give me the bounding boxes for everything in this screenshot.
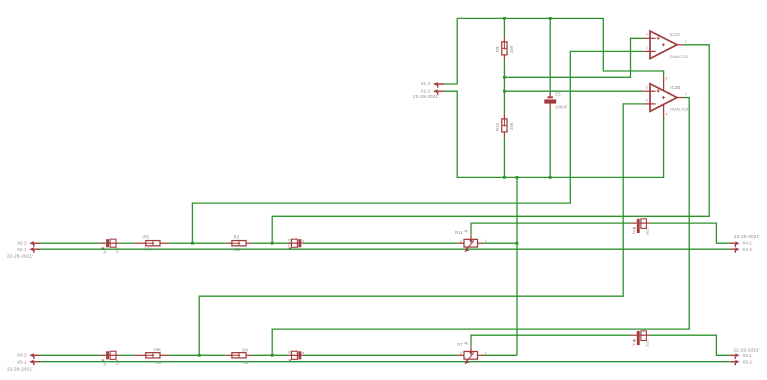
svg-text:22-29-2021': 22-29-2021' bbox=[413, 94, 439, 99]
svg-text:C5: C5 bbox=[555, 91, 561, 96]
svg-text:3: 3 bbox=[646, 33, 648, 37]
svg-text:R9: R9 bbox=[495, 46, 500, 52]
svg-text:X3-2: X3-2 bbox=[17, 353, 27, 358]
svg-text:2: 2 bbox=[460, 352, 462, 356]
svg-text:22-29-2021': 22-29-2021' bbox=[7, 254, 33, 259]
svg-text:2: 2 bbox=[646, 46, 648, 50]
svg-text:R11: R11 bbox=[455, 230, 463, 235]
svg-text:R8: R8 bbox=[156, 360, 162, 365]
svg-text:2: 2 bbox=[460, 239, 462, 243]
svg-text:R7: R7 bbox=[457, 342, 463, 347]
svg-text:X2-2: X2-2 bbox=[17, 241, 27, 246]
svg-text:X4-1: X4-1 bbox=[743, 241, 753, 246]
svg-text:R4: R4 bbox=[243, 360, 249, 365]
svg-text:1: 1 bbox=[485, 239, 487, 243]
svg-text:R3: R3 bbox=[234, 235, 240, 240]
svg-text:10K: 10K bbox=[153, 347, 161, 352]
svg-text:DUAL723: DUAL723 bbox=[670, 55, 688, 59]
svg-text:100nF: 100nF bbox=[555, 104, 568, 109]
svg-text:1: 1 bbox=[485, 351, 487, 355]
svg-text:IC2B: IC2B bbox=[670, 85, 680, 90]
svg-text:X2-1: X2-1 bbox=[17, 247, 27, 252]
svg-text:1u: 1u bbox=[102, 361, 107, 366]
svg-text:22-29-2021': 22-29-2021' bbox=[734, 234, 760, 239]
svg-text:8: 8 bbox=[666, 77, 668, 81]
svg-text:1M: 1M bbox=[242, 347, 248, 352]
svg-text:R5: R5 bbox=[143, 235, 149, 240]
svg-text:1u: 1u bbox=[102, 249, 107, 254]
svg-text:X1-2: X1-2 bbox=[421, 81, 431, 86]
svg-text:10K: 10K bbox=[144, 247, 152, 252]
svg-text:1: 1 bbox=[685, 40, 687, 44]
svg-text:C9: C9 bbox=[287, 350, 292, 356]
svg-text:DUAL723: DUAL723 bbox=[670, 108, 688, 112]
svg-text:C7: C7 bbox=[115, 359, 120, 365]
svg-text:2u2: 2u2 bbox=[645, 339, 650, 347]
svg-text:X3-1: X3-1 bbox=[17, 359, 27, 364]
svg-text:22-29-2021': 22-29-2021' bbox=[734, 347, 760, 352]
svg-text:X1-1: X1-1 bbox=[421, 88, 431, 93]
svg-text:25K: 25K bbox=[509, 45, 514, 53]
svg-text:6: 6 bbox=[646, 98, 648, 102]
svg-text:1u: 1u bbox=[300, 239, 305, 244]
svg-text:4: 4 bbox=[666, 113, 668, 117]
svg-text:C6: C6 bbox=[115, 247, 120, 253]
svg-text:2u2: 2u2 bbox=[645, 227, 650, 235]
svg-text:X5-2: X5-2 bbox=[743, 359, 753, 364]
svg-text:C10: C10 bbox=[287, 238, 292, 247]
svg-text:1u: 1u bbox=[300, 352, 305, 357]
svg-text:R10: R10 bbox=[495, 122, 500, 131]
svg-text:25K: 25K bbox=[509, 122, 514, 130]
svg-text:X5-1: X5-1 bbox=[743, 353, 753, 358]
svg-text:X4-2: X4-2 bbox=[743, 247, 753, 252]
svg-text:22-29-2021': 22-29-2021' bbox=[7, 366, 33, 371]
svg-text:IC2A: IC2A bbox=[670, 32, 680, 37]
svg-text:1M: 1M bbox=[234, 247, 240, 252]
svg-text:7: 7 bbox=[685, 93, 687, 97]
svg-text:5: 5 bbox=[646, 86, 648, 90]
svg-text:1u: 1u bbox=[631, 341, 636, 346]
svg-text:1u: 1u bbox=[631, 229, 636, 234]
